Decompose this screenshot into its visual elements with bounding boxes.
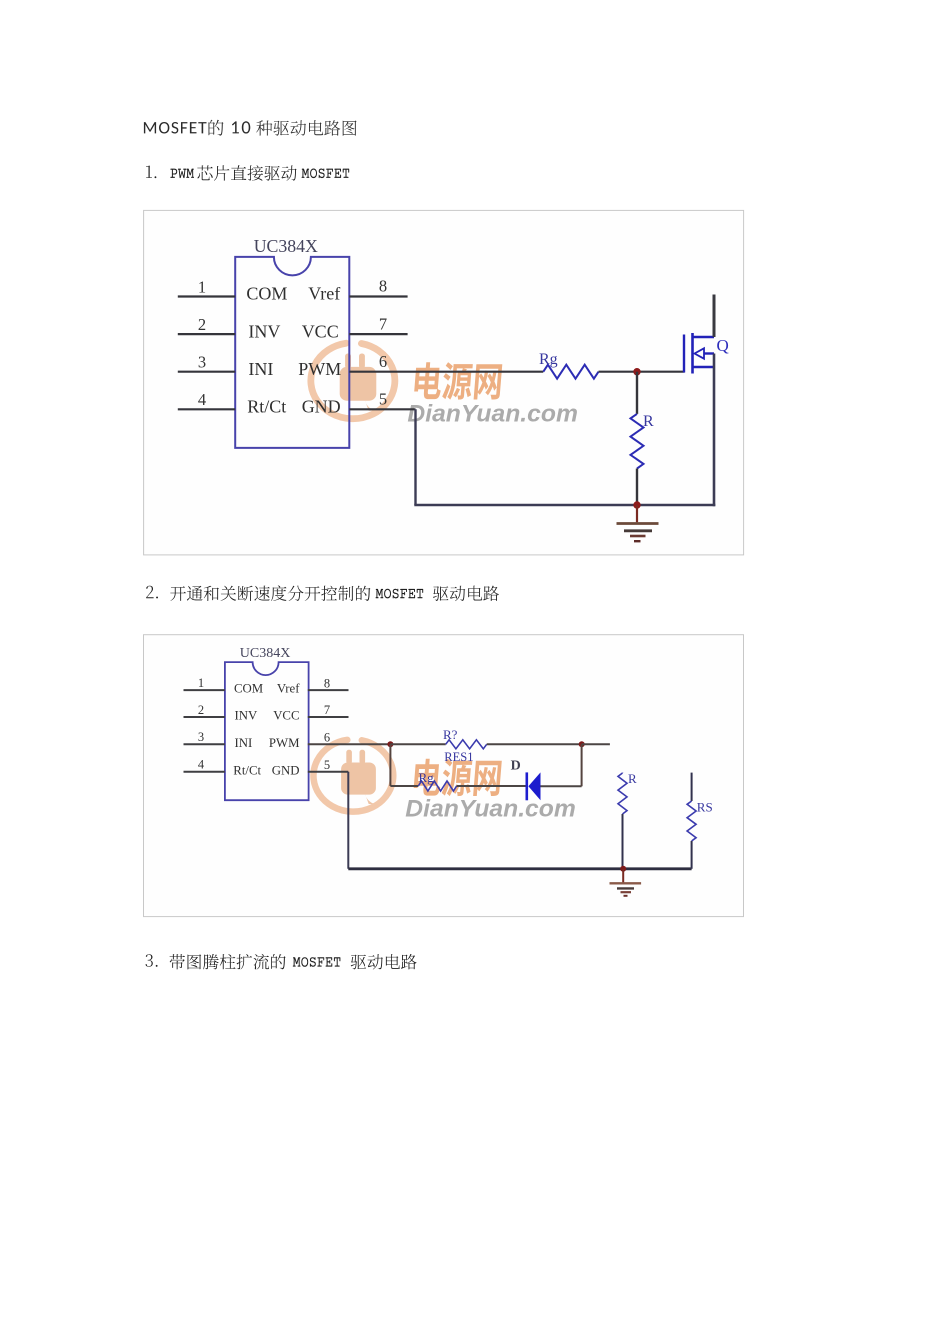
heading 2: 开通和关断速度分开控制的 MOSFET 驱动电路	[146, 585, 499, 601]
resistor Rg (figure 2)	[418, 781, 456, 791]
svg-text:Rt/Ct: Rt/Ct	[247, 397, 286, 417]
pin number 1 (U2)	[198, 676, 204, 690]
svg-text:RS: RS	[697, 800, 713, 815]
svg-text:7: 7	[324, 703, 330, 717]
pin number 7	[379, 314, 387, 333]
pin number 5	[379, 390, 387, 409]
svg-text:6: 6	[324, 731, 330, 745]
pin number 8 (U2)	[324, 676, 330, 690]
svg-text:8: 8	[324, 676, 330, 690]
pin 1 wire	[178, 295, 235, 297]
pin 4 wire	[178, 408, 235, 410]
figure 2 frame	[144, 635, 744, 917]
label Rg	[539, 351, 558, 368]
pin number 7 (U2)	[324, 703, 330, 717]
wire R? to node B	[487, 743, 582, 745]
wire node B output	[582, 743, 610, 745]
pin number 5 (U2)	[324, 758, 330, 772]
pin label INV	[248, 321, 280, 341]
svg-text:Rg: Rg	[419, 770, 435, 785]
label R?	[443, 727, 458, 742]
svg-text:GND: GND	[272, 763, 300, 777]
watermark text DianYuan.com (figure 2)	[405, 795, 576, 822]
wire Rg to diode	[457, 785, 527, 787]
pin 7 wire (U2)	[308, 716, 349, 718]
svg-text:8: 8	[379, 277, 387, 296]
wire bottom rail (figure 2)	[348, 867, 691, 870]
watermark logo plug body	[341, 750, 376, 804]
wire source rail	[713, 354, 716, 507]
watermark logo plug ring	[311, 343, 395, 419]
node B junction	[579, 741, 585, 747]
pin number 4	[198, 390, 206, 409]
svg-text:7: 7	[379, 314, 387, 333]
label RES1	[444, 750, 473, 764]
pin 7 wire	[349, 333, 407, 335]
svg-text:UC384X: UC384X	[240, 646, 291, 661]
node ground junction (figure 2)	[620, 866, 626, 872]
resistor R	[631, 414, 644, 469]
wire GND pin5 (figure 2)	[308, 772, 349, 869]
svg-text:5: 5	[324, 758, 330, 772]
IC U2 label UC384X	[240, 646, 291, 661]
pin label Rt/Ct	[247, 397, 286, 417]
wire PWM pin6 to node A	[308, 743, 391, 745]
pin label Vref	[308, 284, 340, 304]
pin number 6	[379, 352, 387, 371]
svg-text:VCC: VCC	[302, 321, 339, 341]
pin label PWM (U2)	[269, 736, 300, 750]
label R	[643, 413, 654, 430]
svg-text:3: 3	[198, 730, 204, 744]
watermark text DianYuan.com	[407, 401, 578, 428]
wire bottom rail	[414, 504, 715, 507]
heading 1: PWM 芯片直接驱动 MOSFET	[146, 165, 349, 181]
transistor Q drain stub	[693, 336, 715, 339]
transistor Q source stub	[693, 366, 715, 369]
document title: MOSFET 的 10 种驱动电路图	[144, 120, 357, 136]
svg-text:1: 1	[198, 277, 206, 296]
svg-text:Q: Q	[717, 336, 729, 355]
svg-text:4: 4	[198, 758, 205, 772]
svg-text:D: D	[511, 758, 521, 773]
wire drain rail	[713, 295, 716, 338]
svg-text:COM: COM	[234, 682, 263, 696]
resistor Rg	[543, 365, 598, 379]
wire GND vertical	[414, 409, 416, 505]
svg-text:UC384X: UC384X	[254, 236, 318, 256]
pin label GND (U2)	[272, 763, 300, 777]
diode D	[527, 772, 541, 800]
svg-text:3: 3	[198, 353, 206, 372]
wire R to ground node	[636, 469, 638, 506]
label Q	[717, 336, 729, 355]
svg-text:R: R	[643, 413, 654, 430]
pin label COM	[246, 284, 287, 304]
pin number 6 (U2)	[324, 731, 330, 745]
svg-text:INV: INV	[235, 709, 259, 723]
svg-text:VCC: VCC	[273, 709, 299, 723]
svg-text:Vref: Vref	[308, 284, 340, 304]
resistor R (figure 2)	[618, 773, 627, 869]
label R (figure 2)	[628, 771, 637, 786]
node ground junction	[633, 501, 640, 508]
pin number 2	[198, 315, 206, 334]
svg-text:DianYuan.com: DianYuan.com	[407, 401, 578, 428]
pin label Rt/Ct (U2)	[233, 763, 261, 777]
ground symbol	[617, 505, 659, 541]
pin label INI	[248, 359, 273, 379]
node A junction	[387, 741, 393, 747]
pin 8 wire	[349, 295, 407, 297]
IC U1 UC384X body	[235, 257, 349, 448]
svg-text:INI: INI	[235, 736, 253, 750]
pin label INI (U2)	[235, 736, 253, 750]
svg-text:RES1: RES1	[444, 750, 473, 764]
svg-text:DianYuan.com: DianYuan.com	[405, 795, 576, 822]
transistor Q gate bar	[683, 335, 685, 373]
pin label COM (U2)	[234, 682, 263, 696]
pin 8 wire (U2)	[308, 689, 349, 691]
watermark text 电源网 (figure 2)	[414, 759, 502, 796]
svg-text:PWM: PWM	[269, 736, 300, 750]
svg-text:1: 1	[198, 676, 204, 690]
wire node A down branch	[390, 744, 418, 786]
pin 2 wire	[178, 333, 235, 335]
label RS	[697, 800, 713, 815]
pin number 1	[198, 277, 206, 296]
wire PWM pin6 to Rg	[349, 371, 543, 373]
pin number 3	[198, 353, 206, 372]
pin label VCC	[302, 321, 339, 341]
wire Rg to gate node	[599, 371, 685, 373]
svg-text:INV: INV	[248, 321, 280, 341]
pin 3 wire (U2)	[184, 743, 225, 745]
svg-text:R?: R?	[443, 727, 458, 742]
resistor RS	[687, 773, 696, 869]
wire GND pin5	[349, 408, 415, 410]
pin label Vref (U2)	[277, 682, 300, 696]
pin 3 wire	[178, 371, 235, 373]
watermark logo plug ring	[313, 740, 393, 812]
wire node A to R?	[390, 743, 445, 745]
svg-text:6: 6	[379, 352, 387, 371]
pin label PWM	[298, 359, 341, 379]
pin label VCC (U2)	[273, 709, 299, 723]
figure 1 frame	[144, 210, 744, 555]
watermark logo plug body	[340, 354, 377, 411]
svg-text:5: 5	[379, 390, 387, 409]
svg-text:PWM: PWM	[298, 359, 341, 379]
pin 4 wire (U2)	[184, 771, 225, 773]
svg-text:INI: INI	[248, 359, 273, 379]
svg-text:Rt/Ct: Rt/Ct	[233, 763, 261, 777]
pin label INV (U2)	[235, 709, 259, 723]
heading 3: 带图腾柱扩流的 MOSFET 驱动电路	[146, 954, 417, 970]
pin 2 wire (U2)	[184, 716, 225, 718]
pin label GND	[302, 397, 341, 417]
wire gate node to R	[636, 372, 638, 414]
svg-text:GND: GND	[302, 397, 341, 417]
svg-text:Vref: Vref	[277, 682, 300, 696]
transistor Q body arrow	[695, 348, 715, 358]
svg-text:Rg: Rg	[539, 351, 558, 368]
pin number 3 (U2)	[198, 730, 204, 744]
pin number 2 (U2)	[198, 703, 204, 717]
pin number 8	[379, 277, 387, 296]
ground symbol (figure 2)	[610, 869, 642, 896]
watermark text 电源网	[414, 362, 502, 399]
IC U1 label UC384X	[254, 236, 318, 256]
wire diode to riser	[541, 744, 582, 786]
transistor Q channel bar	[691, 333, 694, 374]
label Rg (figure 2)	[419, 770, 435, 785]
node gate junction	[633, 368, 640, 375]
pin 1 wire (U2)	[184, 689, 225, 691]
svg-text:R: R	[628, 771, 637, 786]
pin number 4 (U2)	[198, 758, 205, 772]
svg-text:2: 2	[198, 315, 206, 334]
label D	[511, 758, 521, 773]
svg-text:2: 2	[198, 703, 204, 717]
resistor R? (RES1)	[446, 740, 487, 749]
IC U2 UC384X body	[225, 662, 309, 800]
svg-text:COM: COM	[246, 284, 287, 304]
svg-text:4: 4	[198, 390, 206, 409]
